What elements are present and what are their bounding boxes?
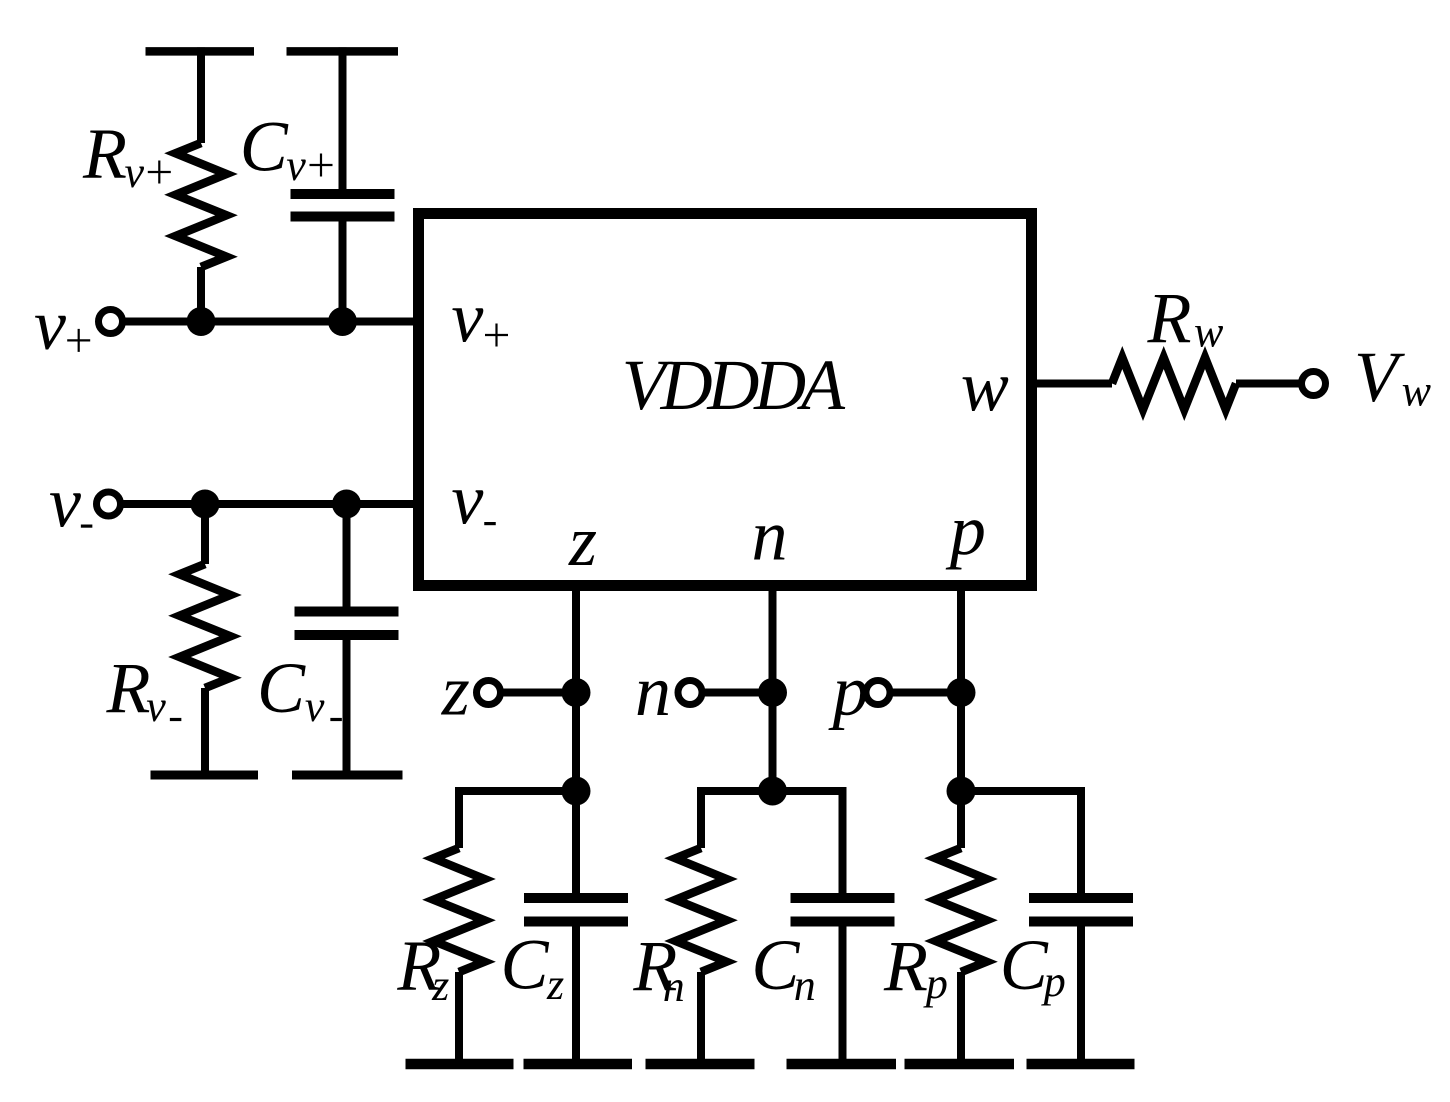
terminal v+: [99, 310, 123, 334]
ground rail under Rp: [905, 1059, 1015, 1070]
svg-text:v: v: [451, 278, 483, 358]
wire z terminal link: [489, 689, 577, 697]
op-amp block U1 VDDDA: [419, 214, 1032, 586]
svg-text:z: z: [546, 960, 564, 1009]
svg-text:C: C: [240, 107, 289, 187]
svg-text:p: p: [945, 490, 986, 570]
label Vw: [1354, 337, 1432, 417]
svg-text:z: z: [568, 501, 597, 581]
ground rail under Cn: [787, 1059, 897, 1070]
label Cn: [751, 925, 815, 1010]
svg-text:v: v: [286, 141, 306, 190]
wire node v+ rail: [111, 318, 419, 326]
label terminal p: [828, 651, 869, 731]
ground rail under Cv-: [292, 771, 403, 780]
svg-text:v: v: [451, 460, 483, 540]
svg-text:n: n: [663, 962, 685, 1011]
svg-text:v: v: [49, 463, 81, 543]
wire p terminal link: [878, 689, 961, 697]
label terminal v-: [49, 463, 92, 543]
label Rn: [632, 926, 684, 1011]
wire node v- rail: [109, 500, 419, 508]
label Cv+: [240, 107, 333, 191]
svg-text:z: z: [431, 961, 449, 1010]
label Rz: [396, 926, 449, 1011]
pin label v- (block): [451, 460, 495, 540]
svg-text:v: v: [146, 682, 166, 731]
junction v+/Rv+: [187, 307, 216, 336]
label VDDDA: [622, 345, 846, 425]
terminal p: [866, 681, 890, 705]
junction v+/Cv+: [328, 307, 357, 336]
label Cv-: [257, 648, 342, 731]
wire top rail of Rv+: [146, 47, 255, 56]
ground rail under Rn: [646, 1059, 755, 1070]
resistor Rv+: [176, 47, 227, 321]
resistor Rp: [936, 791, 987, 1064]
capacitor Cp: [1029, 787, 1133, 1064]
svg-text:C: C: [1000, 925, 1049, 1005]
svg-text:C: C: [501, 925, 550, 1005]
pin label p (block): [945, 490, 986, 570]
junction p node: [947, 678, 976, 707]
svg-text:n: n: [794, 961, 816, 1010]
svg-text:n: n: [752, 496, 788, 576]
svg-text:v: v: [34, 285, 66, 365]
wire p pin stub: [957, 586, 965, 693]
wire top rail of Cv+: [287, 47, 399, 56]
svg-text:n: n: [635, 651, 671, 731]
ground rail under Rv-: [151, 771, 259, 780]
label Rv+: [82, 114, 171, 198]
junction z node: [562, 678, 591, 707]
junction n node: [758, 678, 787, 707]
terminal Vw: [1302, 372, 1326, 396]
svg-text:z: z: [441, 651, 470, 731]
label Cp: [1000, 925, 1066, 1006]
svg-text:w: w: [1194, 307, 1224, 356]
svg-text:R: R: [883, 926, 928, 1006]
wire w pin to Rw: [1037, 380, 1112, 388]
terminal v-: [97, 492, 121, 516]
terminal z: [477, 681, 501, 705]
wire z pin stub: [572, 586, 580, 693]
svg-text:R: R: [82, 114, 127, 194]
label Cz: [501, 925, 565, 1010]
svg-text:p: p: [923, 959, 948, 1008]
label terminal n: [635, 651, 671, 731]
label Rw: [1147, 278, 1225, 358]
wire p branch horizontal: [961, 787, 1081, 795]
svg-text:R: R: [1147, 278, 1192, 358]
junction v-/Rv-: [191, 490, 220, 519]
wire z node down: [572, 693, 580, 792]
svg-text:p: p: [828, 651, 869, 731]
resistor Rz: [434, 787, 485, 1064]
svg-text:p: p: [1041, 957, 1066, 1006]
wire p node down: [957, 693, 965, 792]
svg-text:w: w: [961, 346, 1009, 426]
capacitor Cv+: [291, 47, 395, 321]
capacitor Cz: [524, 791, 628, 1064]
ground rail under Cp: [1027, 1059, 1135, 1070]
label terminal z: [441, 651, 470, 731]
pin label z (block): [568, 501, 597, 581]
label Rp: [883, 926, 948, 1008]
pin label n (block): [752, 496, 788, 576]
resistor Rw: [1112, 358, 1314, 410]
svg-text:w: w: [1402, 367, 1432, 416]
svg-text:V: V: [1354, 337, 1405, 417]
svg-text:C: C: [257, 648, 306, 728]
pin label v+ (block): [451, 278, 508, 358]
wire n terminal link: [690, 689, 773, 697]
ground rail under Cz: [524, 1059, 633, 1070]
capacitor Cv-: [295, 504, 399, 775]
terminal n: [678, 681, 702, 705]
svg-text:VDDDA: VDDDA: [622, 345, 846, 425]
label terminal v+: [34, 285, 90, 365]
label Rv-: [106, 648, 182, 731]
wire n branch horizontal: [701, 787, 843, 795]
wire n pin stub: [769, 586, 777, 693]
capacitor Cn: [791, 787, 895, 1064]
junction v-/Cv-: [332, 490, 361, 519]
svg-text:v: v: [125, 148, 145, 197]
junction p branch: [947, 777, 976, 806]
resistor Rn: [676, 787, 727, 1064]
wire z branch horizontal: [459, 787, 576, 795]
resistor Rv-: [180, 504, 231, 775]
junction n branch: [758, 777, 787, 806]
pin label w (block): [961, 346, 1009, 426]
svg-text:v: v: [305, 682, 325, 731]
junction z branch: [562, 777, 591, 806]
wire n node down: [769, 693, 777, 792]
svg-text:R: R: [106, 648, 151, 728]
ground rail under Rz: [406, 1059, 514, 1070]
